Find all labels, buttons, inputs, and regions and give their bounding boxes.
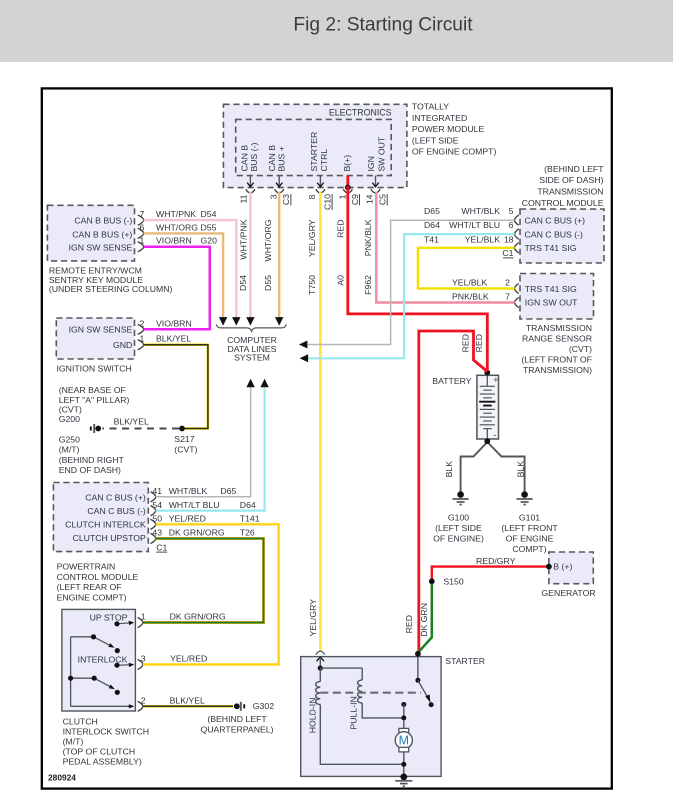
svg-text:54: 54 [152, 500, 162, 510]
svg-text:(CVT): (CVT) [569, 344, 592, 354]
svg-text:CAN C BUS (-): CAN C BUS (-) [525, 229, 584, 239]
svg-text:TOTALLY: TOTALLY [412, 102, 449, 112]
svg-text:COMPT): COMPT) [512, 544, 546, 554]
svg-text:VIO/BRN: VIO/BRN [156, 236, 192, 246]
svg-text:F962: F962 [363, 275, 373, 295]
svg-text:2: 2 [141, 696, 146, 706]
svg-text:CLUTCH UPSTOP: CLUTCH UPSTOP [73, 533, 146, 543]
svg-text:11: 11 [238, 194, 248, 203]
svg-text:POWERTRAIN: POWERTRAIN [57, 561, 116, 571]
svg-text:D64: D64 [240, 500, 256, 510]
svg-text:BLK: BLK [444, 461, 454, 478]
svg-text:G101: G101 [519, 513, 540, 523]
svg-text:41: 41 [152, 486, 162, 496]
svg-text:LEFT "A" PILLAR): LEFT "A" PILLAR) [59, 395, 130, 405]
svg-text:Fig 2: Starting Circuit: Fig 2: Starting Circuit [293, 15, 473, 36]
svg-text:(BEHIND LEFT: (BEHIND LEFT [544, 164, 604, 174]
svg-text:CLUTCH INTERLCK: CLUTCH INTERLCK [65, 520, 146, 530]
svg-text:T26: T26 [240, 528, 255, 538]
svg-text:D65: D65 [220, 486, 236, 496]
svg-text:6: 6 [509, 220, 514, 230]
svg-text:YEL/BLK: YEL/BLK [452, 277, 487, 287]
svg-text:OF ENGINE COMPT): OF ENGINE COMPT) [412, 147, 497, 157]
svg-text:BUS +: BUS + [277, 146, 287, 171]
svg-text:YEL/BLK: YEL/BLK [465, 235, 500, 245]
svg-text:T141: T141 [240, 514, 260, 524]
svg-text:43: 43 [152, 528, 162, 538]
svg-text:WHT/LT BLU: WHT/LT BLU [169, 500, 220, 510]
svg-text:BUS (-): BUS (-) [249, 142, 259, 171]
svg-text:IGN SW SENSE: IGN SW SENSE [69, 243, 133, 253]
svg-text:OF ENGINE: OF ENGINE [506, 534, 554, 544]
svg-text:BLK: BLK [515, 461, 525, 478]
svg-text:T41: T41 [424, 235, 439, 245]
svg-text:PULL-IN: PULL-IN [348, 696, 358, 729]
svg-text:RED: RED [336, 220, 346, 238]
svg-text:C10: C10 [322, 194, 332, 210]
svg-text:7: 7 [505, 291, 510, 301]
svg-text:RED/GRY: RED/GRY [476, 556, 516, 566]
svg-text:ELECTRONICS: ELECTRONICS [329, 107, 392, 117]
svg-text:OF ENGINE): OF ENGINE) [433, 534, 484, 544]
svg-text:1: 1 [140, 236, 145, 246]
svg-text:DK GRN: DK GRN [419, 603, 429, 637]
svg-text:S150: S150 [443, 577, 463, 587]
svg-text:TRANSMISSION: TRANSMISSION [537, 187, 603, 197]
svg-text:2: 2 [505, 277, 510, 287]
svg-text:(NEAR BASE OF: (NEAR BASE OF [59, 385, 126, 395]
svg-text:(CVT): (CVT) [59, 404, 82, 414]
svg-text:TRANSMISSION): TRANSMISSION) [523, 365, 592, 375]
svg-text:WHT/PNK: WHT/PNK [238, 219, 248, 259]
svg-text:CAN B: CAN B [239, 145, 249, 172]
svg-text:D55: D55 [263, 275, 273, 291]
svg-text:5: 5 [509, 206, 514, 216]
svg-text:PNK/BLK: PNK/BLK [363, 219, 373, 256]
svg-text:G200: G200 [59, 414, 80, 424]
svg-text:DK GRN/ORG: DK GRN/ORG [169, 528, 225, 538]
svg-text:SW OUT: SW OUT [377, 136, 387, 171]
svg-text:CLUTCH: CLUTCH [63, 717, 98, 727]
svg-text:TRS T41 SIG: TRS T41 SIG [525, 243, 577, 253]
svg-text:CONTROL MODULE: CONTROL MODULE [522, 198, 604, 208]
svg-text:(BEHIND RIGHT: (BEHIND RIGHT [59, 455, 125, 465]
svg-text:WHT/BLK: WHT/BLK [169, 486, 208, 496]
svg-text:RANGE SENSOR: RANGE SENSOR [522, 333, 592, 343]
svg-text:D55: D55 [201, 222, 217, 232]
svg-text:G20: G20 [201, 236, 218, 246]
svg-text:YEL/GRY: YEL/GRY [307, 219, 317, 257]
svg-text:CAN B BUS (-): CAN B BUS (-) [74, 215, 132, 225]
svg-text:BLK/YEL: BLK/YEL [114, 416, 149, 426]
svg-text:(M/T): (M/T) [63, 737, 84, 747]
svg-text:YEL/GRY: YEL/GRY [308, 599, 318, 637]
svg-text:1: 1 [141, 612, 146, 622]
svg-text:BATTERY: BATTERY [432, 376, 471, 386]
svg-text:INTEGRATED: INTEGRATED [412, 113, 467, 123]
svg-text:HOLD-IN: HOLD-IN [308, 698, 318, 734]
svg-text:G100: G100 [448, 513, 469, 523]
svg-text:WHT/BLK: WHT/BLK [461, 206, 500, 216]
svg-text:T750: T750 [307, 275, 317, 295]
svg-text:RED: RED [404, 615, 414, 633]
svg-text:280924: 280924 [48, 773, 76, 783]
svg-text:QUARTERPANEL): QUARTERPANEL) [200, 724, 273, 734]
svg-text:C1: C1 [502, 248, 513, 258]
svg-text:7: 7 [140, 209, 145, 219]
svg-text:GND: GND [113, 340, 132, 350]
svg-text:C3: C3 [281, 194, 291, 205]
svg-text:POWER MODULE: POWER MODULE [412, 124, 485, 134]
svg-text:CAN B: CAN B [267, 145, 277, 172]
svg-text:RED: RED [461, 334, 471, 352]
svg-text:B (+): B (+) [553, 562, 572, 572]
svg-text:WHT/ORG: WHT/ORG [156, 222, 198, 232]
svg-text:(LEFT FRONT OF: (LEFT FRONT OF [521, 354, 592, 364]
svg-text:3: 3 [141, 654, 146, 664]
svg-text:C1: C1 [156, 542, 167, 552]
svg-text:YEL/RED: YEL/RED [170, 654, 207, 664]
svg-text:D64: D64 [424, 220, 440, 230]
svg-text:PEDAL ASSEMBLY): PEDAL ASSEMBLY) [63, 757, 142, 767]
svg-text:6: 6 [140, 222, 145, 232]
svg-text:YEL/RED: YEL/RED [169, 514, 206, 524]
svg-text:1: 1 [337, 194, 347, 199]
svg-text:50: 50 [152, 514, 162, 524]
svg-text:2: 2 [140, 318, 145, 328]
svg-text:CAN C BUS (+): CAN C BUS (+) [525, 215, 586, 225]
svg-text:SYSTEM: SYSTEM [234, 353, 270, 363]
svg-text:ENGINE COMPT): ENGINE COMPT) [57, 593, 127, 603]
svg-text:B(+): B(+) [342, 155, 352, 172]
svg-text:BLK/YEL: BLK/YEL [170, 696, 205, 706]
svg-text:IGN: IGN [366, 156, 376, 171]
svg-text:G302: G302 [253, 701, 274, 711]
svg-text:SIDE OF DASH): SIDE OF DASH) [539, 175, 603, 185]
svg-text:1: 1 [140, 334, 145, 344]
svg-text:STARTER: STARTER [445, 656, 485, 666]
svg-text:G250: G250 [59, 434, 80, 444]
svg-text:IGN SW SENSE: IGN SW SENSE [69, 324, 133, 334]
svg-text:INTERLOCK: INTERLOCK [78, 654, 128, 664]
svg-text:TRS T41 SIG: TRS T41 SIG [525, 284, 577, 294]
svg-text:(TOP OF CLUTCH: (TOP OF CLUTCH [63, 747, 136, 757]
svg-text:D54: D54 [201, 209, 217, 219]
svg-text:CTRL: CTRL [319, 149, 329, 172]
svg-text:IGNITION SWITCH: IGNITION SWITCH [57, 364, 132, 374]
svg-text:BLK/YEL: BLK/YEL [156, 334, 191, 344]
svg-text:(LEFT FRONT: (LEFT FRONT [501, 523, 558, 533]
svg-text:CAN C BUS (+): CAN C BUS (+) [85, 492, 146, 502]
svg-text:C9: C9 [350, 194, 360, 205]
svg-text:S217: S217 [174, 434, 194, 444]
svg-text:(UNDER STEERING COLUMN): (UNDER STEERING COLUMN) [49, 284, 173, 294]
svg-text:PNK/BLK: PNK/BLK [452, 291, 489, 301]
svg-text:14: 14 [365, 194, 375, 204]
svg-text:(CVT): (CVT) [174, 445, 197, 455]
svg-text:18: 18 [504, 235, 514, 245]
svg-text:WHT/LT BLU: WHT/LT BLU [449, 220, 500, 230]
svg-text:END OF DASH): END OF DASH) [59, 465, 121, 475]
svg-text:VIO/BRN: VIO/BRN [156, 318, 192, 328]
svg-text:-: - [493, 430, 496, 441]
svg-text:WHT/PNK: WHT/PNK [156, 209, 196, 219]
svg-text:CAN C BUS (-): CAN C BUS (-) [87, 506, 146, 516]
svg-text:C5: C5 [378, 194, 388, 205]
svg-text:(M/T): (M/T) [59, 445, 80, 455]
svg-text:STARTER: STARTER [309, 132, 319, 172]
svg-text:M: M [399, 734, 409, 748]
svg-text:RED: RED [474, 334, 484, 352]
svg-text:INTERLOCK SWITCH: INTERLOCK SWITCH [63, 727, 149, 737]
svg-text:TRANSMISSION: TRANSMISSION [526, 323, 592, 333]
svg-text:WHT/ORG: WHT/ORG [263, 219, 273, 261]
svg-text:(LEFT REAR OF: (LEFT REAR OF [57, 582, 122, 592]
svg-text:A0: A0 [336, 275, 346, 286]
svg-text:D65: D65 [424, 206, 440, 216]
svg-text:DK GRN/ORG: DK GRN/ORG [170, 612, 226, 622]
svg-text:(BEHIND LEFT: (BEHIND LEFT [207, 714, 267, 724]
svg-text:(LEFT SIDE: (LEFT SIDE [412, 135, 459, 145]
svg-text:UP STOP: UP STOP [90, 612, 128, 622]
svg-text:CAN B BUS (+): CAN B BUS (+) [72, 229, 132, 239]
svg-text:D54: D54 [238, 275, 248, 291]
svg-text:8: 8 [307, 194, 317, 199]
svg-text:3: 3 [269, 194, 279, 199]
svg-text:GENERATOR: GENERATOR [541, 588, 595, 598]
svg-text:(LEFT SIDE: (LEFT SIDE [435, 523, 482, 533]
svg-text:IGN SW OUT: IGN SW OUT [525, 298, 578, 308]
svg-text:+: + [493, 375, 498, 385]
svg-text:CONTROL MODULE: CONTROL MODULE [57, 572, 139, 582]
